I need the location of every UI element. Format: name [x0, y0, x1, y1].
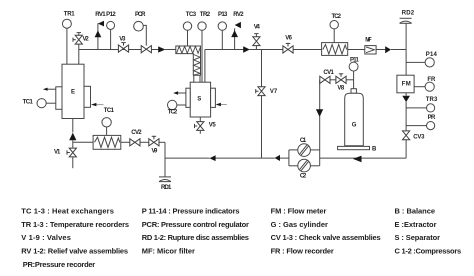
svg-text:B: B — [372, 146, 377, 152]
svg-text:RD 1-2: Rupture disc assemblie: RD 1-2: Rupture disc assemblies — [142, 233, 249, 242]
svg-text:V3: V3 — [119, 37, 126, 43]
svg-text:CV3: CV3 — [413, 135, 425, 141]
svg-text:P13: P13 — [218, 12, 228, 18]
svg-text:V6: V6 — [285, 36, 292, 42]
svg-text:RV 1-2: Relief valve assemblie: RV 1-2: Relief valve assemblies — [21, 247, 128, 256]
svg-text:TC3: TC3 — [186, 12, 197, 18]
svg-text:TC1: TC1 — [23, 100, 34, 106]
svg-text:G: G — [352, 123, 357, 129]
svg-text:TC 1-3 : Heat exchangers: TC 1-3 : Heat exchangers — [21, 207, 114, 216]
svg-text:RD2: RD2 — [402, 10, 415, 16]
svg-text:FM : Flow meter: FM : Flow meter — [271, 207, 327, 216]
svg-text:RD1: RD1 — [161, 185, 172, 191]
svg-text:P 11-14 : Pressure indicators: P 11-14 : Pressure indicators — [142, 207, 240, 216]
svg-text:V 1-9 : Valves: V 1-9 : Valves — [21, 233, 71, 242]
svg-text:TR 1-3 : Temperature recorders: TR 1-3 : Temperature recorders — [21, 220, 129, 229]
svg-text:FR: FR — [427, 77, 436, 83]
svg-text:PCR: Pressure control regulato: PCR: Pressure control regulator — [142, 220, 249, 229]
svg-text:MF: Micor filter: MF: Micor filter — [142, 247, 195, 256]
svg-text:PR:Pressure recorder: PR:Pressure recorder — [23, 260, 95, 269]
svg-text:TC2: TC2 — [168, 110, 178, 116]
svg-text:TR1: TR1 — [64, 11, 75, 17]
svg-text:S : Separator: S : Separator — [395, 233, 441, 242]
svg-text:C2: C2 — [300, 173, 307, 179]
svg-text:CV1: CV1 — [323, 70, 334, 76]
svg-text:E :Extractor: E :Extractor — [395, 220, 437, 229]
svg-text:S: S — [197, 96, 201, 102]
svg-text:RV1 P12: RV1 P12 — [95, 12, 116, 18]
svg-text:V8: V8 — [337, 85, 344, 91]
svg-text:C 1-2 :Compressors: C 1-2 :Compressors — [395, 247, 462, 256]
svg-text:V5: V5 — [209, 123, 217, 129]
svg-text:V7: V7 — [270, 89, 278, 95]
svg-text:TC2: TC2 — [332, 14, 342, 20]
svg-text:TR2: TR2 — [200, 12, 211, 18]
svg-text:TR3: TR3 — [426, 97, 438, 103]
svg-text:FM: FM — [402, 81, 411, 87]
svg-text:PCR: PCR — [135, 12, 146, 18]
svg-text:C1: C1 — [300, 138, 307, 144]
svg-text:P14: P14 — [426, 52, 438, 58]
svg-text:V2: V2 — [83, 37, 90, 43]
svg-text:V9: V9 — [152, 149, 158, 155]
svg-text:CV2: CV2 — [131, 130, 142, 136]
svg-text:CV 1-3 : Check valve assemblie: CV 1-3 : Check valve assemblies — [271, 233, 381, 242]
svg-text:MF: MF — [365, 38, 372, 44]
svg-text:FR : Flow recorder: FR : Flow recorder — [271, 247, 334, 256]
svg-text:E: E — [71, 89, 75, 95]
svg-text:TC1: TC1 — [104, 108, 115, 114]
svg-text:G : Gas cylinder: G : Gas cylinder — [271, 220, 328, 229]
svg-text:V4: V4 — [254, 25, 261, 31]
svg-text:RV2: RV2 — [233, 12, 244, 18]
svg-text:PR: PR — [428, 115, 436, 121]
svg-text:P11: P11 — [350, 57, 359, 63]
svg-text:V1: V1 — [54, 150, 61, 156]
svg-text:B : Balance: B : Balance — [395, 207, 436, 216]
